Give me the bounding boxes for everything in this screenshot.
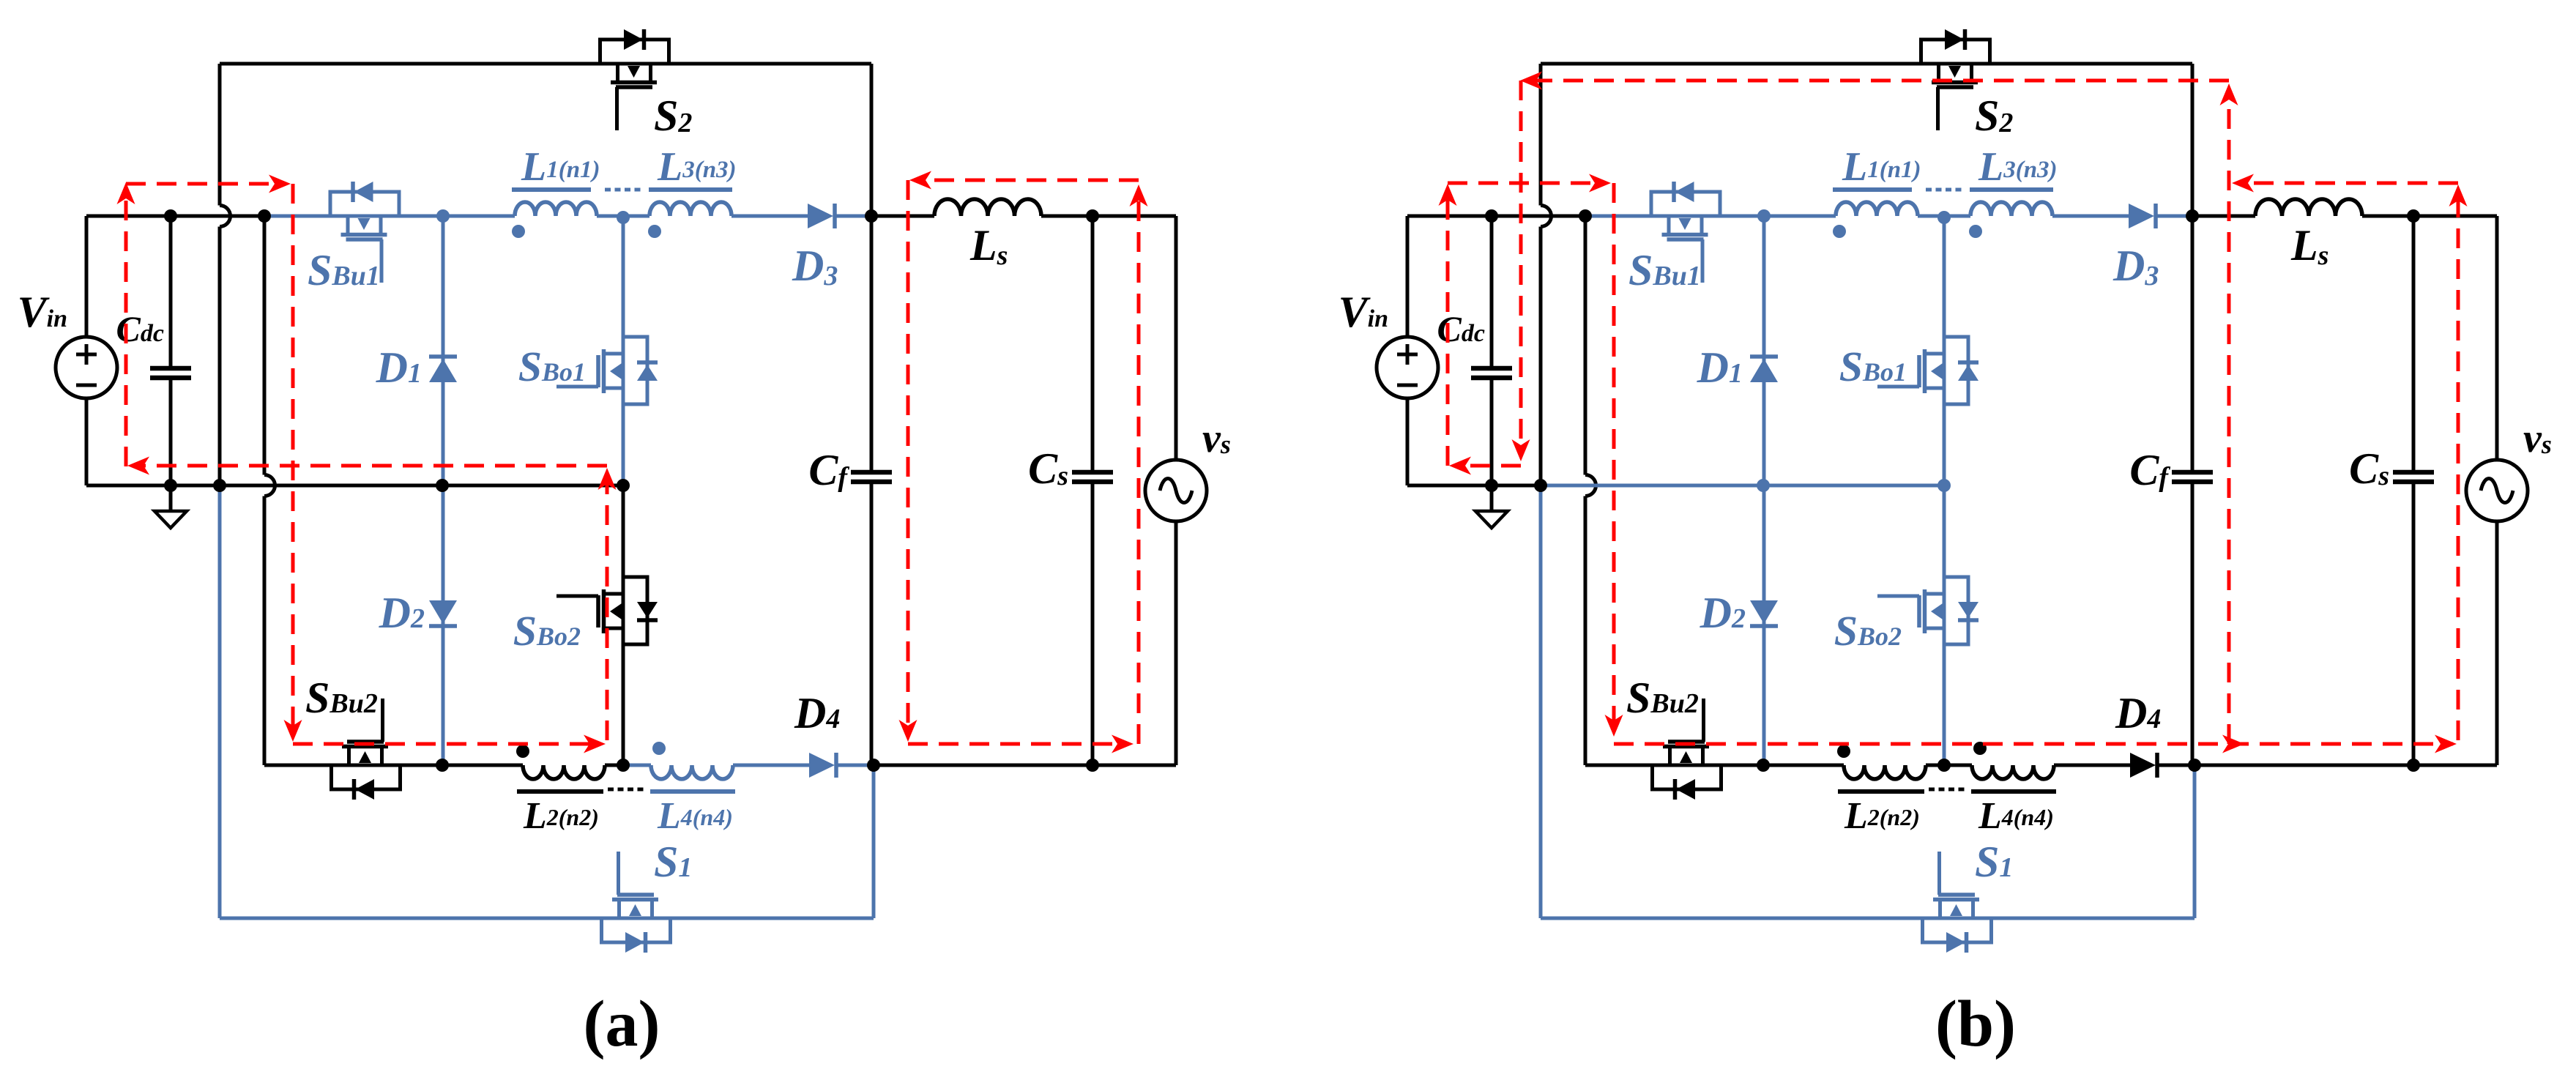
svg-text:(a): (a) xyxy=(584,988,660,1060)
svg-text:(b): (b) xyxy=(1935,988,2016,1060)
